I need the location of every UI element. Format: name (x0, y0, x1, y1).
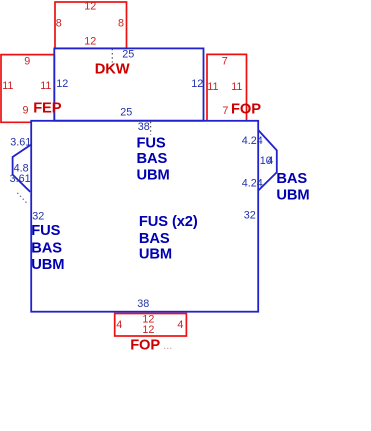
svg-text:25: 25 (120, 107, 132, 119)
svg-text:FUS (x2): FUS (x2) (139, 214, 198, 230)
svg-text:BAS: BAS (139, 231, 170, 247)
svg-text:FEP: FEP (33, 100, 62, 116)
svg-text:32: 32 (32, 210, 44, 222)
svg-text:32: 32 (244, 210, 256, 222)
svg-text:UBM: UBM (137, 168, 170, 184)
svg-text:38: 38 (138, 121, 150, 133)
svg-text:BAS: BAS (137, 151, 168, 167)
dotted diagonal below left tab (17, 193, 28, 205)
svg-text:11: 11 (2, 80, 13, 92)
svg-text:FOP: FOP (130, 338, 160, 354)
svg-text:3.61: 3.61 (10, 136, 31, 148)
svg-text:12: 12 (84, 35, 96, 47)
svg-text:FUS: FUS (31, 223, 60, 239)
svg-text:11: 11 (231, 81, 242, 93)
panel rect top (12x8) (55, 2, 127, 48)
svg-text:12: 12 (56, 78, 68, 90)
svg-text:FUS: FUS (137, 136, 166, 152)
svg-text:11: 11 (207, 81, 218, 93)
svg-text:UBM: UBM (276, 187, 309, 203)
svg-text:4: 4 (116, 319, 122, 331)
svg-text:7: 7 (222, 105, 228, 117)
svg-text:UBM: UBM (139, 246, 172, 262)
svg-text:3.61: 3.61 (10, 173, 31, 185)
dotted vertical mark below main top edge (150, 122, 152, 135)
panel rect FOP bottom (12x4) (115, 314, 187, 337)
left tab polyline (3.61/4.8/3.61) (13, 145, 32, 192)
panel rect FEP (9x11) (1, 55, 54, 123)
right tab polyline (4.24/4/4.24) (258, 130, 277, 191)
svg-text:4: 4 (267, 155, 273, 167)
svg-text:4.24: 4.24 (242, 135, 263, 147)
svg-text:25: 25 (122, 48, 134, 60)
svg-text:11: 11 (40, 80, 51, 92)
svg-text:9: 9 (24, 56, 30, 68)
svg-text:12: 12 (142, 324, 154, 336)
svg-text:UBM: UBM (31, 257, 64, 273)
svg-text:...: ... (163, 340, 172, 352)
panel rect DKW (25x12) (54, 48, 203, 120)
svg-text:8: 8 (56, 18, 62, 30)
svg-text:12: 12 (84, 1, 96, 13)
svg-text:FOP: FOP (231, 101, 261, 117)
panel rect main fuselage (38x32) (31, 121, 258, 312)
svg-text:BAS: BAS (276, 171, 307, 187)
svg-text:9: 9 (23, 105, 29, 117)
dotted vertical mark at DKW top (111, 49, 113, 63)
svg-text:7: 7 (222, 56, 228, 68)
panel rect FOP right (7x11) (207, 54, 247, 120)
svg-text:38: 38 (137, 298, 149, 310)
svg-text:4: 4 (177, 319, 183, 331)
svg-text:12: 12 (191, 78, 203, 90)
svg-text:DKW: DKW (95, 61, 130, 77)
svg-text:8: 8 (118, 18, 124, 30)
svg-text:BAS: BAS (31, 241, 62, 257)
svg-text:4.24: 4.24 (242, 178, 263, 190)
